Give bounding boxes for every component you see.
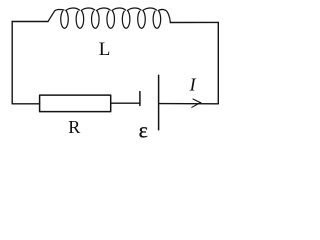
wire resistor to battery — [111, 102, 140, 104]
battery short plate (negative) — [139, 92, 141, 106]
battery long plate (positive) — [158, 75, 160, 129]
wire bottom right (battery to corner) — [159, 103, 219, 105]
svg-text:ε: ε — [139, 117, 148, 142]
wire bottom left (corner to resistor) — [12, 103, 39, 105]
svg-text:R: R — [68, 117, 80, 137]
wire right vertical — [217, 22, 219, 103]
wire top right segment — [171, 21, 219, 23]
current arrow head — [192, 99, 201, 107]
wire left vertical — [11, 22, 13, 104]
svg-text:L: L — [99, 39, 111, 60]
svg-text:I: I — [189, 75, 197, 95]
resistor R box — [40, 95, 111, 112]
wire top left segment — [12, 21, 48, 23]
inductor L coil — [48, 8, 170, 28]
